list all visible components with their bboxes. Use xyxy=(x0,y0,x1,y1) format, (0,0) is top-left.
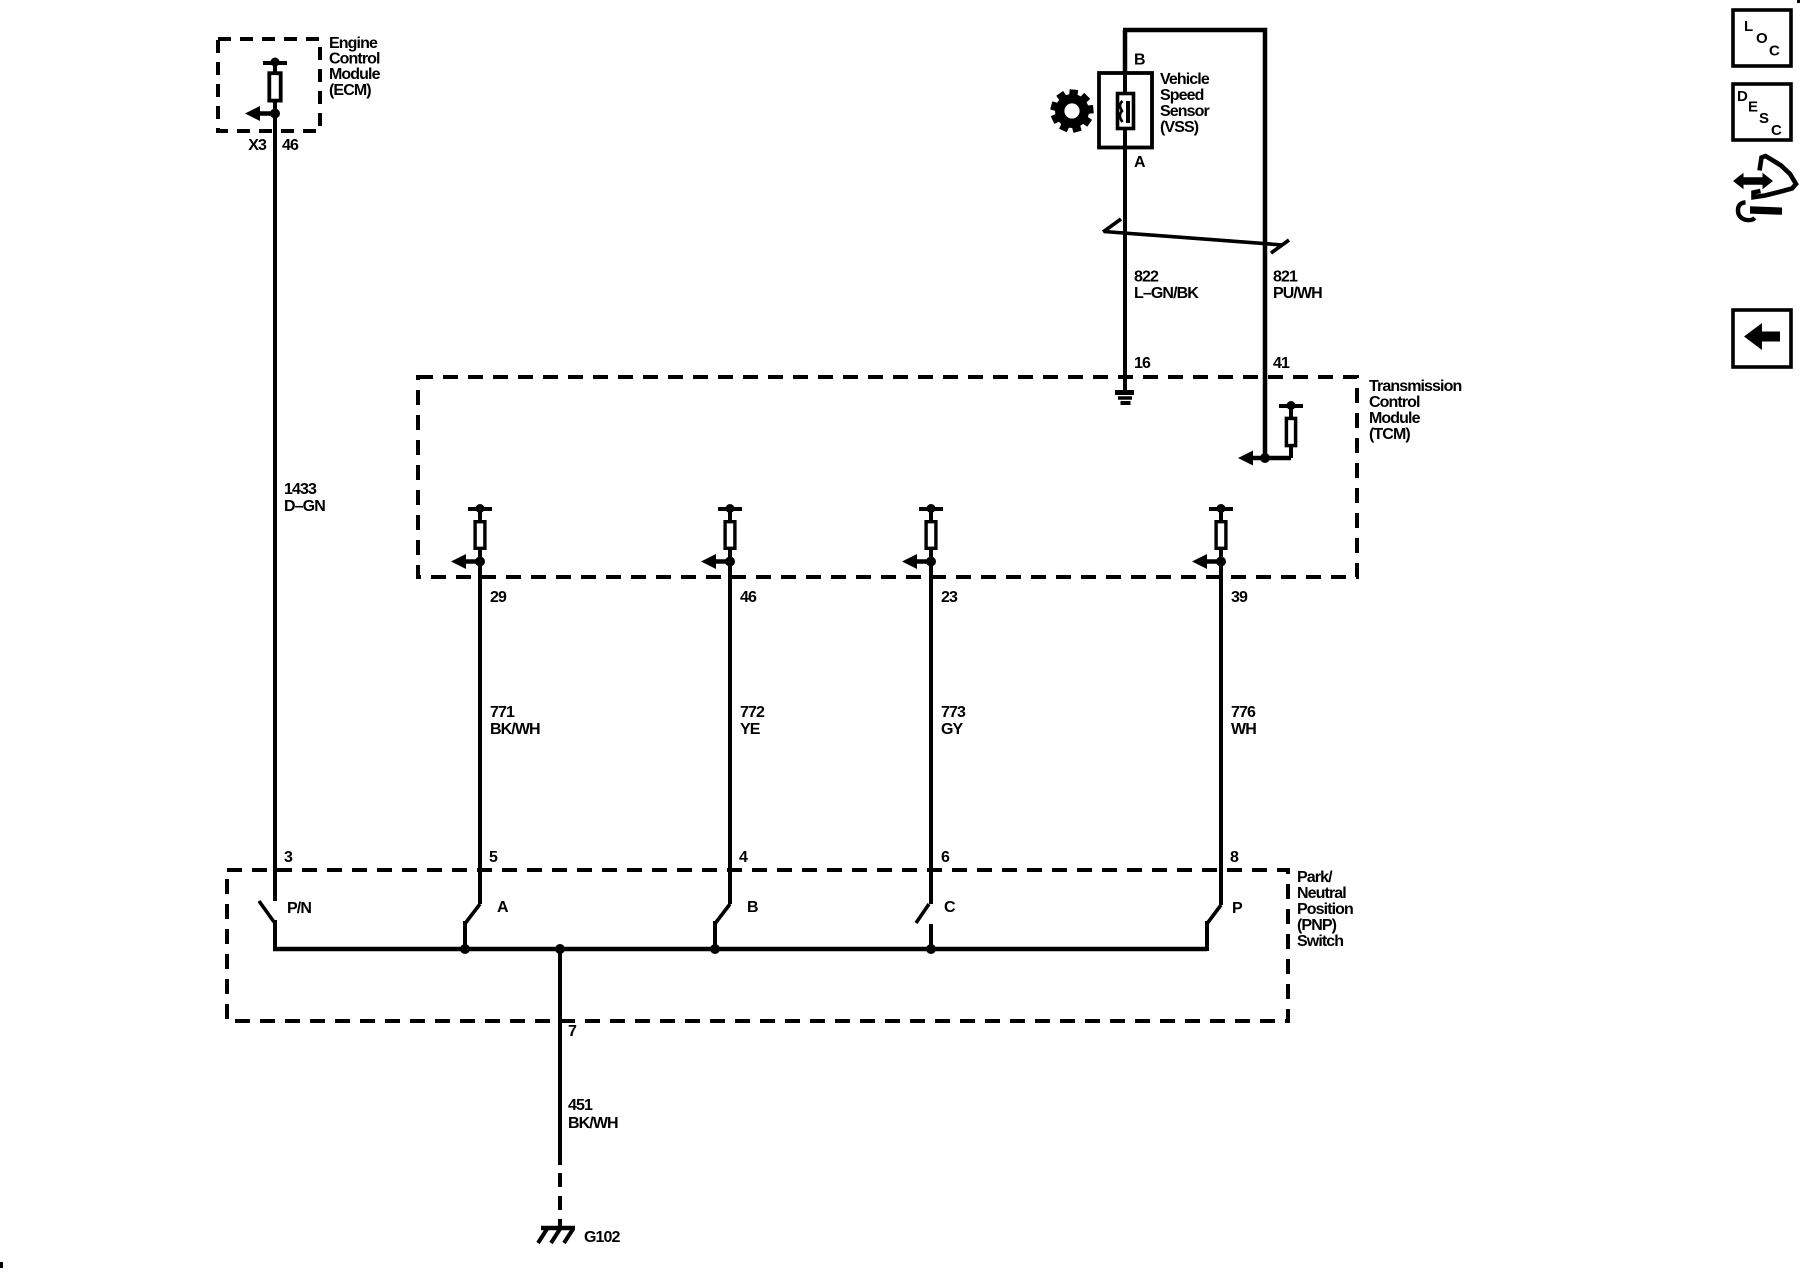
Vehicle Speed Sensor (VSS) box xyxy=(1099,73,1152,148)
svg-text:1433: 1433 xyxy=(284,481,317,498)
svg-text:P/N: P/N xyxy=(287,900,311,917)
junction dot wire 7 on bus xyxy=(555,944,565,954)
svg-text:Position: Position xyxy=(1297,901,1353,918)
svg-text:(ECM): (ECM) xyxy=(329,82,371,99)
svg-text:Sensor: Sensor xyxy=(1160,103,1210,120)
label switch C xyxy=(944,899,956,916)
label PNP pin 8 xyxy=(1230,849,1239,866)
svg-text:GY: GY xyxy=(941,721,964,738)
svg-text:C: C xyxy=(1771,122,1782,139)
wire 451 dashed segment to ground xyxy=(558,1173,562,1229)
svg-text:821: 821 xyxy=(1273,269,1298,286)
svg-text:Control: Control xyxy=(329,51,380,68)
wire to VSS pin B xyxy=(1123,30,1128,92)
switch P/N (pin 3) xyxy=(259,901,275,951)
label Engine Control Module (ECM) xyxy=(329,35,381,99)
svg-text:YE: YE xyxy=(740,721,761,738)
svg-text:3: 3 xyxy=(284,849,293,866)
chassis ground G102 xyxy=(538,1228,575,1243)
wire 776 WH (TCM 39 to PNP 8) xyxy=(1219,562,1223,906)
svg-text:776: 776 xyxy=(1231,704,1256,721)
svg-text:C: C xyxy=(1769,43,1780,60)
Transmission Control Module (TCM) dashed box xyxy=(418,377,1357,577)
label Park/Neutral Position (PNP) Switch xyxy=(1297,869,1353,950)
svg-text:D: D xyxy=(1737,88,1748,105)
label PNP pin 7 xyxy=(568,1023,577,1040)
svg-text:Control: Control xyxy=(1369,394,1420,411)
svg-text:G102: G102 xyxy=(584,1229,621,1246)
icon back arrow box xyxy=(1733,310,1791,367)
svg-text:S: S xyxy=(1759,110,1769,127)
label switch P xyxy=(1232,900,1243,917)
wire 773 GY (TCM 23 to PNP 6) xyxy=(929,562,933,905)
label TCM pin 16 xyxy=(1134,355,1151,372)
label PNP pin 4 xyxy=(739,849,748,866)
svg-text:Module: Module xyxy=(329,66,381,83)
label PNP pin 6 xyxy=(941,849,950,866)
svg-text:46: 46 xyxy=(282,137,299,154)
svg-text:X3: X3 xyxy=(248,137,267,154)
svg-text:773: 773 xyxy=(941,704,966,721)
svg-text:C: C xyxy=(944,899,956,916)
label VSS pin B xyxy=(1134,52,1145,69)
svg-text:(PNP): (PNP) xyxy=(1297,917,1337,934)
label wire 821 PU/WH xyxy=(1273,269,1322,303)
icon wiring/repair tool xyxy=(1733,156,1796,220)
label pin 29 xyxy=(490,589,507,606)
svg-text:451: 451 xyxy=(568,1097,593,1114)
TCM pin 39 terminal xyxy=(1192,504,1233,569)
svg-text:B: B xyxy=(747,899,758,916)
wire through VSS box xyxy=(1123,73,1127,147)
label Vehicle Speed Sensor (VSS) xyxy=(1160,71,1210,136)
svg-text:D–GN: D–GN xyxy=(284,498,325,515)
svg-text:PU/WH: PU/WH xyxy=(1273,285,1322,302)
svg-text:WH: WH xyxy=(1231,721,1256,738)
label pin 23 xyxy=(941,589,958,606)
svg-text:29: 29 xyxy=(490,589,507,606)
wire 822 L-GN/BK from VSS A to TCM pin 16 xyxy=(1123,130,1127,377)
svg-text:5: 5 xyxy=(489,849,498,866)
icon LOC box xyxy=(1733,10,1791,66)
svg-text:(VSS): (VSS) xyxy=(1160,119,1199,136)
ground symbol inside TCM at pin 16 xyxy=(1115,377,1134,403)
label switch A xyxy=(497,899,509,916)
icon DESC box xyxy=(1733,84,1791,140)
svg-text:Module: Module xyxy=(1369,410,1421,427)
svg-text:BK/WH: BK/WH xyxy=(490,721,540,738)
label wire 773 GY xyxy=(941,704,966,738)
svg-text:39: 39 xyxy=(1231,589,1248,606)
ECM connector pin terminal X3-46 xyxy=(245,58,287,122)
svg-text:8: 8 xyxy=(1230,849,1239,866)
svg-text:E: E xyxy=(1748,99,1758,116)
switch C (pin 6) xyxy=(916,904,936,954)
label wire 772 YE xyxy=(740,704,765,738)
svg-text:O: O xyxy=(1756,30,1768,47)
svg-text:4: 4 xyxy=(739,849,748,866)
label wire 776 WH xyxy=(1231,704,1256,738)
label TCM pin 41 xyxy=(1273,355,1290,372)
label wire 451 BK/WH xyxy=(568,1097,618,1132)
switch A (pin 5) xyxy=(460,904,480,954)
switch P (pin 8) xyxy=(1207,905,1221,951)
label connector X3 xyxy=(248,137,267,154)
svg-text:Park/: Park/ xyxy=(1297,869,1333,886)
label PNP pin 5 xyxy=(489,849,498,866)
svg-text:41: 41 xyxy=(1273,355,1290,372)
svg-text:Engine: Engine xyxy=(329,35,378,52)
label G102 xyxy=(584,1229,621,1246)
svg-text:6: 6 xyxy=(941,849,950,866)
svg-text:A: A xyxy=(497,899,509,916)
switch B (pin 4) xyxy=(710,904,730,954)
gear icon (speed sensor rotor) xyxy=(1050,89,1094,133)
svg-text:A: A xyxy=(1134,154,1146,171)
wire break option symbol xyxy=(1103,219,1289,253)
label switch B xyxy=(747,899,758,916)
TCM pin 29 terminal xyxy=(451,504,492,569)
svg-text:P: P xyxy=(1232,900,1243,917)
label pin 39 xyxy=(1231,589,1248,606)
svg-text:23: 23 xyxy=(941,589,958,606)
svg-text:L: L xyxy=(1744,18,1753,35)
svg-text:822: 822 xyxy=(1134,269,1159,286)
TCM pin 23 terminal xyxy=(902,504,943,569)
svg-text:16: 16 xyxy=(1134,355,1151,372)
label switch P/N xyxy=(287,900,311,917)
Park/Neutral Position (PNP) Switch dashed box xyxy=(227,870,1288,1021)
svg-text:L–GN/BK: L–GN/BK xyxy=(1134,285,1199,302)
TCM pin 41 terminal xyxy=(1238,401,1303,466)
VSS connector pin block xyxy=(1118,94,1134,129)
svg-text:(TCM): (TCM) xyxy=(1369,426,1410,443)
label pin 46 xyxy=(740,589,757,606)
label wire 1433 D-GN xyxy=(284,481,325,515)
svg-text:Switch: Switch xyxy=(1297,933,1343,950)
svg-text:7: 7 xyxy=(568,1023,577,1040)
svg-text:772: 772 xyxy=(740,704,765,721)
svg-text:Speed: Speed xyxy=(1160,87,1204,104)
wire 771 BK/WH (TCM 29 to PNP 5) xyxy=(478,562,482,905)
wire 772 YE (TCM 46 to PNP 4) xyxy=(728,562,732,905)
svg-text:46: 46 xyxy=(740,589,757,606)
label PNP pin 3 xyxy=(284,849,293,866)
label pin 46 xyxy=(282,137,299,154)
svg-text:BK/WH: BK/WH xyxy=(568,1115,618,1132)
label wire 822 L-GN/BK xyxy=(1134,269,1199,303)
TCM pin 46 terminal xyxy=(701,504,742,569)
svg-text:771: 771 xyxy=(490,704,515,721)
label Transmission Control Module (TCM) xyxy=(1369,378,1461,443)
wire 451 solid segment (PNP pin 7) xyxy=(558,949,562,1165)
PNP common bus wire xyxy=(273,947,1207,952)
wire 1433 D-GN from ECM pin 46 to PNP pin 3 xyxy=(273,114,277,902)
Engine Control Module (ECM) dashed box xyxy=(218,39,320,131)
label VSS pin A xyxy=(1134,154,1146,171)
svg-text:Vehicle: Vehicle xyxy=(1160,71,1210,88)
label wire 771 BK/WH xyxy=(490,704,540,738)
svg-text:Transmission: Transmission xyxy=(1369,378,1461,395)
svg-text:B: B xyxy=(1134,52,1145,69)
wire 821 PU/WH top run (to TCM pin 41) xyxy=(1123,30,1265,458)
svg-text:Neutral: Neutral xyxy=(1297,885,1346,902)
